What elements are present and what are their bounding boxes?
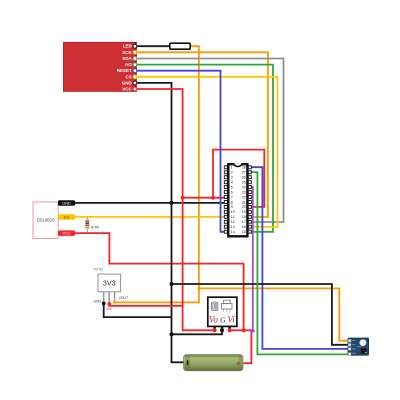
op IC U1 DIP-28 body [228, 163, 247, 236]
svg-text:13: 13 [231, 225, 235, 229]
wire CS yellow (display CS to U1 pin 16) [136, 77, 277, 227]
wire 3V3 regulator GND black [104, 303, 172, 317]
svg-text:17: 17 [242, 220, 246, 224]
svg-text:11: 11 [231, 215, 235, 219]
3V3 regulator (TO-92) [93, 267, 128, 311]
wire LED-out orange (resistor to 3V3 rail, down left to VOUT) [115, 46, 199, 302]
svg-text:8: 8 [231, 200, 233, 204]
svg-text:3V3: 3V3 [103, 279, 116, 288]
svg-text:28: 28 [242, 166, 246, 170]
DS18B20 DQ pin label [58, 214, 75, 220]
wire 3V3 rail orange (to sensor VIN pin 1) [199, 288, 349, 340]
svg-text:Vi: Vi [227, 315, 235, 325]
U1 notch [234, 163, 242, 166]
svg-text:19: 19 [242, 210, 246, 214]
svg-text:AO: AO [125, 62, 132, 67]
wire U1 pin28 blue (to sensor pin 3) [251, 167, 349, 349]
svg-text:3: 3 [231, 176, 233, 180]
svg-text:10: 10 [231, 210, 235, 214]
svg-text:22: 22 [242, 195, 246, 199]
svg-text:14: 14 [231, 230, 235, 234]
DS18B20 VCC pin label [58, 230, 75, 236]
TFT display module board [63, 42, 136, 91]
svg-text:SCK: SCK [122, 50, 132, 55]
U1 pin squares [224, 166, 251, 233]
wire U1 pin27 green (to sensor pin 4) [251, 172, 349, 354]
wire AO green (display AO to U1 pin 15) [136, 65, 273, 232]
wire GND black (display GND down to battery minus) [136, 83, 184, 362]
TO-220 package icon [224, 300, 231, 303]
3V3 pin labels [93, 300, 101, 304]
svg-text:G: G [220, 316, 226, 325]
wire 7805 G black (to GND vertical) [172, 328, 223, 334]
svg-text:GND: GND [93, 300, 101, 304]
svg-text:26: 26 [242, 176, 246, 180]
wire SDA gray (display SDA to U1 pin 17) [136, 59, 283, 223]
svg-text:VOUT: VOUT [119, 296, 128, 300]
svg-text:SDA: SDA [122, 56, 132, 61]
svg-text:12: 12 [231, 220, 235, 224]
wire DS18B20 DQ yellow (to U1 pin 11) [58, 216, 225, 218]
svg-text:VCC: VCC [122, 87, 132, 92]
wire DS18B20 VCC red (to battery plus / Vi node) [58, 233, 244, 331]
svg-text:23: 23 [242, 190, 246, 194]
svg-text:DQ: DQ [64, 215, 70, 219]
wire U1 pin7 VCC red [183, 197, 225, 199]
Vo G Vi text [209, 315, 235, 325]
wire 7805 Vi red (to battery plus) [230, 330, 252, 363]
display pin labels [117, 44, 133, 92]
svg-text:18: 18 [242, 215, 246, 219]
wire RESET blue (display RESET to U1 pin 14) [136, 71, 225, 232]
svg-text:15: 15 [242, 230, 246, 234]
svg-text:16: 16 [242, 225, 246, 229]
svg-text:CS: CS [126, 74, 132, 79]
svg-text:5: 5 [231, 185, 233, 189]
svg-text:VCC: VCC [62, 232, 70, 236]
svg-text:24: 24 [242, 185, 246, 189]
svg-text:GND: GND [62, 202, 71, 206]
wire LED (black from display to resistor) [136, 45, 170, 47]
svg-text:1: 1 [231, 166, 233, 170]
sensor pads [348, 339, 351, 342]
svg-text:GND: GND [122, 80, 133, 85]
svg-text:2: 2 [231, 171, 233, 175]
svg-text:4: 4 [231, 181, 233, 185]
wire U1 pin24 purple (battery sense) [251, 187, 253, 331]
wire GND rail black (to sensor pin 2) [172, 284, 349, 345]
battery 18650 cell [184, 355, 244, 371]
svg-text:LED: LED [123, 44, 133, 49]
resistor R2 4.7K pull-up [86, 217, 100, 233]
display pads [133, 44, 137, 91]
DS18B20 temperature sensor [33, 202, 58, 239]
7805-style regulator block (Vo G Vi) [208, 297, 237, 331]
wire SCK orange (display SCK to U1 pin 18) [136, 52, 268, 217]
svg-text:4,7K: 4,7K [91, 224, 100, 229]
svg-text:20: 20 [242, 205, 246, 209]
svg-text:6: 6 [231, 190, 233, 194]
junction dots [102, 196, 255, 337]
svg-text:27: 27 [242, 171, 246, 175]
value label 4,7K [91, 224, 100, 229]
capacitor icon [212, 302, 218, 310]
wire VCC red (display VCC down to regulator Vo line) [136, 89, 214, 330]
svg-text:21: 21 [242, 200, 246, 204]
svg-text:TO-92: TO-92 [94, 267, 104, 271]
wire 3V3 regulator VIN red [109, 304, 182, 306]
svg-text:25: 25 [242, 181, 246, 185]
DS18B20 GND pin label [58, 200, 75, 206]
svg-text:9: 9 [231, 205, 233, 209]
resistor R1 (LED series resistor) [170, 43, 190, 49]
wire DS18B20 GND black (to U1 pin 8) [58, 202, 225, 204]
wire U1 pin20 AVCC red loop [213, 150, 264, 207]
U1 pin numbers [231, 166, 246, 234]
svg-text:Vo: Vo [209, 315, 219, 325]
pin stubs [215, 326, 230, 331]
svg-text:VIN: VIN [106, 307, 112, 311]
sensor module (I2C breakout) [348, 338, 369, 355]
svg-text:7: 7 [231, 195, 233, 199]
svg-text:RESET: RESET [117, 68, 132, 73]
svg-text:DS18B20: DS18B20 [37, 218, 55, 223]
